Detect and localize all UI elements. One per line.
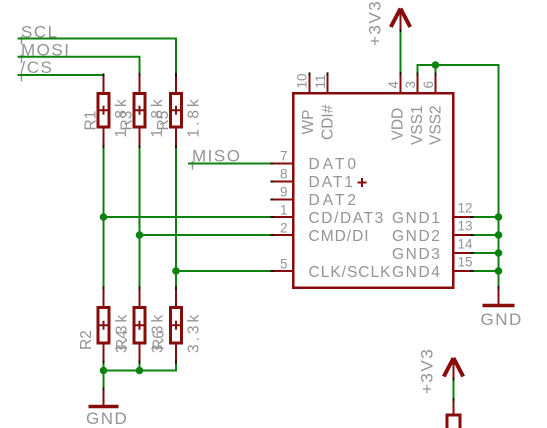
svg-text:CD/DAT3: CD/DAT3 — [309, 210, 385, 227]
pin end DAT1 stub junction mark — [270, 181, 273, 183]
svg-text:GND1: GND1 — [392, 210, 441, 227]
ground GND left — [86, 389, 128, 428]
svg-text:R5: R5 — [155, 111, 172, 131]
pin end CDI# stub junction mark — [327, 72, 329, 75]
pin end R2 top junction mark — [103, 286, 105, 289]
pin end R3 top junction mark — [139, 73, 141, 76]
pin 15 GND4 stub — [455, 270, 473, 272]
svg-text:WP: WP — [300, 110, 317, 135]
wire column 2 vertical — [139, 147, 141, 289]
svg-text:+3V3: +3V3 — [366, 0, 385, 46]
svg-text:CMD/DI: CMD/DI — [309, 228, 370, 245]
svg-text:12: 12 — [458, 201, 473, 216]
label tick SCL — [21, 36, 23, 45]
pin end R6 top junction mark — [175, 286, 177, 289]
pin end +3V3 top arrow junction mark — [400, 29, 402, 32]
svg-text:VDD: VDD — [390, 108, 407, 141]
wire VSS1/VSS2 to right rail — [418, 65, 499, 288]
ground GND right — [481, 288, 523, 330]
wire +3V3 to R7 — [453, 379, 455, 400]
svg-text:1.8k: 1.8k — [186, 96, 203, 137]
junction node GND1/rail — [495, 213, 503, 221]
pin end CLK stub junction mark — [270, 270, 273, 272]
svg-text:GND4: GND4 — [392, 264, 441, 281]
pin 9 DAT2 stub — [272, 199, 292, 201]
wire to pin 2 CMD/DI — [140, 234, 273, 236]
wire column 3 vertical — [175, 147, 177, 289]
wire /CS horizontal — [18, 74, 104, 77]
wire bottom bus — [104, 362, 177, 371]
pin end +3V3 bottom arrow junction mark — [453, 377, 455, 380]
pin end R2 bottom junction mark — [103, 360, 105, 363]
svg-text:13: 13 — [458, 219, 473, 234]
supply +3V3 top arrow — [391, 9, 410, 31]
svg-text:1: 1 — [280, 203, 288, 218]
svg-text:GND2: GND2 — [392, 228, 441, 245]
pin 1 CD/DAT3 stub — [272, 216, 292, 218]
wire GND2 to rail — [472, 234, 499, 236]
svg-text:CLK/SCLK: CLK/SCLK — [309, 264, 392, 281]
supply +3V3 bottom arrow — [444, 358, 463, 379]
svg-text:R2: R2 — [78, 330, 95, 350]
resistor R6 — [171, 288, 182, 362]
wire col2 to bus — [139, 362, 141, 371]
wire +3V3 to pin 4 — [400, 31, 402, 74]
pin end R5 top junction mark — [175, 73, 177, 76]
junction node bus/col1 — [100, 367, 108, 375]
svg-text:DAT0: DAT0 — [309, 156, 359, 173]
pin end DAT2 stub junction mark — [270, 199, 273, 201]
junction node col2/pin2 — [136, 231, 144, 239]
pin end R1 top junction mark — [103, 73, 105, 76]
resistor R5 — [171, 75, 182, 147]
wire GND1 to rail — [472, 216, 499, 218]
svg-text:10: 10 — [295, 73, 310, 88]
pin end VSS1 stub junction mark — [417, 72, 419, 75]
pin end R5 bottom junction mark — [175, 145, 177, 148]
svg-text:GND: GND — [86, 409, 128, 428]
junction node GND4/rail — [495, 267, 503, 275]
pin end DAT0 stub junction mark — [270, 163, 273, 165]
svg-text:9: 9 — [280, 185, 288, 200]
pin end R7 top junction mark — [453, 398, 455, 401]
pin end WP stub junction mark — [309, 72, 311, 75]
svg-text:4: 4 — [386, 81, 401, 89]
wire bus to GND — [103, 371, 105, 390]
pin end GND2 stub junction mark — [470, 234, 473, 236]
svg-text:3: 3 — [403, 81, 418, 89]
pin 11 CDI# stub — [327, 74, 329, 93]
pin end R4 top junction mark — [139, 286, 141, 289]
pin 12 GND1 stub — [455, 216, 473, 218]
svg-text:GND: GND — [481, 310, 523, 329]
svg-text:R1: R1 — [83, 111, 100, 131]
resistor R7 partial — [447, 400, 460, 428]
svg-text:7: 7 — [280, 149, 288, 164]
label tick /CS — [21, 73, 23, 82]
wire GND4 to rail — [472, 270, 499, 272]
wire column 1 vertical — [103, 147, 105, 289]
wire to pin 5 CLK/SCLK — [176, 270, 272, 272]
junction node bus/col2 — [136, 367, 144, 375]
svg-text:3.3k: 3.3k — [186, 312, 203, 353]
pin 7 DAT0 stub — [272, 163, 292, 165]
label tick MOSI — [21, 55, 23, 64]
svg-text:R6: R6 — [151, 330, 168, 350]
junction node GND2/rail — [495, 231, 503, 239]
pin end GND3 stub junction mark — [470, 252, 473, 254]
svg-text:R4: R4 — [114, 330, 131, 350]
pin end GND1 stub junction mark — [470, 216, 473, 218]
pin 5 CLK/SCLK stub — [272, 270, 292, 272]
resistor R4 — [134, 288, 145, 362]
wire SCL horizontal — [18, 39, 177, 75]
junction node pin6/rail — [432, 61, 440, 69]
pin 6 VSS2 stub — [435, 74, 437, 93]
junction node GND3/rail — [495, 249, 503, 257]
svg-text:6: 6 — [421, 81, 436, 89]
pin end R4 bottom junction mark — [139, 360, 141, 363]
resistor R2 — [98, 288, 109, 362]
wire MISO to pin 7 — [188, 163, 272, 165]
wire MOSI horizontal — [18, 57, 140, 75]
resistor R1 — [98, 75, 109, 147]
svg-text:2: 2 — [280, 221, 288, 236]
pin 13 GND2 stub — [455, 234, 473, 236]
junction node col1/pin1 — [100, 213, 108, 221]
pin 14 GND3 stub — [455, 252, 473, 254]
svg-text:11: 11 — [313, 74, 328, 88]
svg-text:8: 8 — [280, 167, 288, 182]
pin 8 DAT1 stub — [272, 181, 292, 183]
pin end R3 bottom junction mark — [139, 145, 141, 148]
pin end R6 bottom junction mark — [175, 360, 177, 363]
wire pin 6 up — [435, 65, 437, 74]
IC U1 SD socket body — [293, 93, 453, 288]
svg-text:5: 5 — [280, 257, 288, 272]
wire GND3 to rail — [472, 252, 499, 254]
pin 10 WP stub — [309, 74, 311, 93]
junction node col3/pin5 — [172, 267, 180, 275]
pin 4 VDD stub — [400, 74, 402, 93]
wire to pin 1 CD/DAT3 — [104, 216, 273, 218]
svg-text:VSS2: VSS2 — [428, 105, 445, 145]
svg-text:R3: R3 — [119, 111, 136, 131]
pin end CD/DAT3 stub junction mark — [270, 216, 273, 218]
pin end VSS2 stub junction mark — [435, 72, 437, 75]
pin 3 VSS1 stub — [417, 74, 419, 93]
pin end GND left junction mark — [103, 387, 105, 390]
svg-text:DAT1: DAT1 — [309, 174, 355, 191]
svg-text:CDI#: CDI# — [320, 104, 337, 140]
svg-text:DAT2: DAT2 — [309, 192, 359, 209]
svg-text:GND3: GND3 — [392, 246, 441, 263]
svg-text:/CS: /CS — [21, 58, 54, 77]
svg-text:+3V3: +3V3 — [418, 348, 437, 394]
pin end GND right junction mark — [498, 286, 500, 289]
origin cross U1 — [358, 178, 367, 187]
label tick MISO — [192, 161, 194, 170]
pin end CMD/DI stub junction mark — [270, 234, 273, 236]
resistor R3 — [134, 75, 145, 147]
pin 2 CMD/DI stub — [272, 234, 292, 236]
svg-text:VSS1: VSS1 — [409, 105, 426, 145]
pin end VDD stub junction mark — [400, 72, 402, 75]
svg-text:15: 15 — [458, 255, 473, 270]
svg-text:14: 14 — [458, 237, 474, 252]
pin end GND4 stub junction mark — [470, 270, 473, 272]
wire col1 to bus — [103, 362, 105, 371]
pin end R1 bottom junction mark — [103, 145, 105, 148]
